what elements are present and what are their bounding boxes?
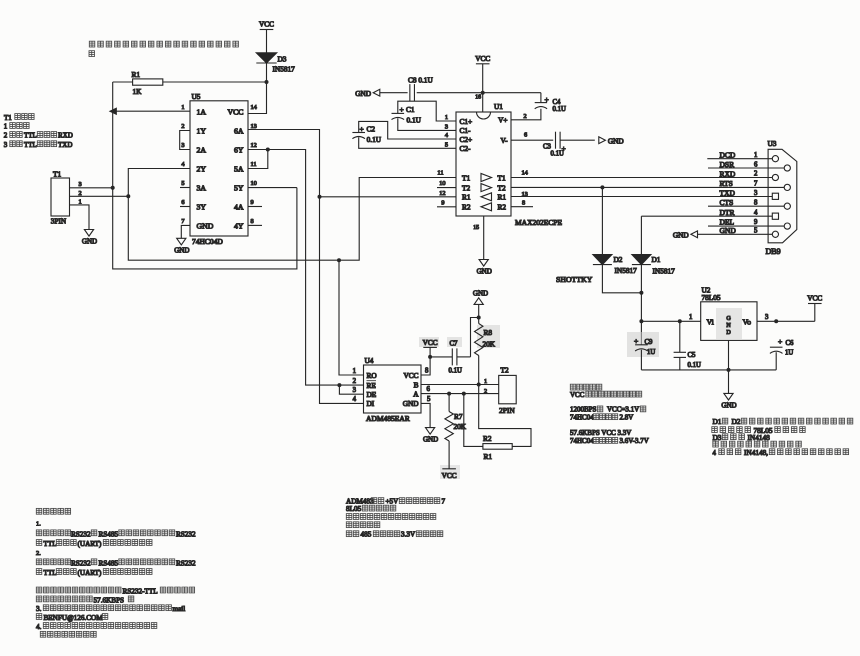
power VCC (above U1) (476, 63, 490, 65)
svg-text:T1: T1 (4, 114, 12, 122)
svg-text:9: 9 (754, 219, 758, 226)
wire CTS line (708, 205, 784, 207)
wire A line to T2 (421, 393, 499, 395)
svg-text:1.: 1. (36, 520, 41, 527)
junction C5 (678, 319, 682, 323)
svg-text:RO: RO (367, 371, 377, 380)
junction R7/A (447, 392, 451, 396)
svg-text:U3: U3 (768, 139, 777, 148)
wire U1 pin9 stub (437, 206, 456, 208)
svg-text:Vi: Vi (707, 318, 715, 327)
svg-text:MAX202ECPE: MAX202ECPE (515, 218, 563, 227)
svg-text:C8 0.1U: C8 0.1U (408, 76, 433, 85)
svg-text:T1: T1 (498, 173, 506, 182)
RS232 transceiver U1 MAX202ECPE (456, 112, 511, 216)
wire U5 pin9 stub (248, 206, 262, 208)
svg-text:57.6KBPS: 57.6KBPS (94, 596, 125, 604)
svg-text:13: 13 (251, 123, 257, 130)
svg-text:RS232: RS232 (71, 559, 91, 567)
svg-text:0.1U: 0.1U (553, 106, 566, 113)
svg-text:D1: D1 (713, 417, 722, 426)
svg-text:0.1U: 0.1U (688, 362, 701, 369)
svg-text:TXD: TXD (720, 188, 736, 197)
annotation: test results block (570, 384, 576, 390)
svg-text:74HC04D: 74HC04D (192, 237, 223, 246)
wire U5 pin12-pin11 jumper (248, 149, 268, 151)
svg-text:DTR: DTR (720, 208, 735, 217)
svg-text:3.3V: 3.3V (401, 531, 416, 539)
svg-text:T2: T2 (498, 183, 506, 192)
svg-text:1A: 1A (197, 108, 207, 117)
svg-text:VCC: VCC (442, 471, 457, 480)
svg-text:9: 9 (441, 200, 444, 207)
capacitor C3 + wire V- pin6 to ground (511, 139, 553, 141)
svg-text:IN5817: IN5817 (273, 65, 296, 74)
svg-text:TTL: TTL (24, 141, 37, 149)
junction RE/DE tie (337, 383, 341, 387)
svg-text:14: 14 (251, 104, 258, 111)
wire U5 pin7 to ground (181, 225, 190, 238)
connector T1 3PIN (51, 178, 70, 216)
svg-text:R1: R1 (484, 452, 493, 461)
svg-text:10: 10 (439, 180, 445, 187)
resistor R8 20K (478, 318, 480, 324)
svg-text:U4: U4 (365, 356, 374, 365)
svg-text:IN5817: IN5817 (653, 267, 676, 276)
wire U5 pin4 (2Y) to bus A (128, 169, 456, 261)
svg-text:1U: 1U (647, 349, 655, 356)
svg-text:2: 2 (79, 190, 82, 197)
svg-text:TTL: TTL (44, 569, 57, 577)
diode D1 IN5817 (632, 255, 651, 265)
svg-text:12: 12 (439, 190, 445, 197)
svg-text:7: 7 (442, 497, 446, 505)
svg-text:C6: C6 (786, 340, 795, 347)
wire U5 pin14 to VCC node (248, 82, 267, 114)
svg-text:R7: R7 (454, 412, 463, 421)
svg-text:78L05: 78L05 (702, 293, 721, 302)
svg-text:16: 16 (475, 94, 481, 100)
svg-text:VCC: VCC (807, 293, 822, 302)
wire U2 pin3 to VCC (757, 320, 815, 322)
annotation: bottom-left description block (36, 508, 42, 514)
svg-text:D1: D1 (652, 255, 661, 264)
svg-text:C4: C4 (553, 99, 562, 106)
svg-text:RS485: RS485 (99, 530, 119, 538)
wire TXD line (U1 pin8 to DB9 pin3) (511, 196, 772, 198)
svg-text:3: 3 (353, 387, 357, 394)
svg-text:15: 15 (473, 225, 479, 231)
svg-text:3: 3 (181, 142, 184, 149)
resistor R1 termination + wiring (464, 394, 483, 447)
svg-text:7: 7 (754, 181, 758, 188)
svg-text:+: + (778, 337, 782, 346)
ground (U1 pin15) (479, 260, 488, 267)
svg-text:8: 8 (754, 200, 758, 207)
svg-text:3: 3 (79, 181, 82, 188)
svg-text:3: 3 (754, 190, 758, 197)
svg-text:+: + (400, 105, 404, 114)
wire DCD line (707, 158, 772, 160)
junction VCC/U1 (481, 91, 485, 95)
svg-text:GND: GND (720, 226, 737, 235)
connector U3 DB9 (768, 149, 797, 243)
svg-text:DI: DI (367, 399, 375, 408)
svg-text:RE: RE (367, 381, 377, 390)
svg-text:12: 12 (251, 142, 257, 149)
wire U1 pin10 stub (437, 187, 456, 189)
wire D1 cathode down to regulator input (640, 265, 642, 345)
svg-text:8: 8 (522, 200, 525, 207)
svg-text:2: 2 (353, 378, 357, 385)
svg-text:1: 1 (754, 152, 757, 159)
svg-text:N: N (726, 323, 731, 329)
svg-text:9: 9 (251, 199, 254, 206)
svg-text:RS232: RS232 (176, 559, 196, 567)
svg-text:C7: C7 (450, 340, 459, 347)
wire T1 pin1 to ground (70, 205, 90, 230)
svg-text:1: 1 (79, 199, 82, 206)
svg-text:4Y: 4Y (234, 221, 244, 230)
wire D3 cathode to R1 node (266, 63, 268, 82)
capacitor C7 0.1U (430, 356, 452, 358)
wire DB9 GND line (697, 233, 772, 235)
capacitor C9 1U (635, 344, 648, 346)
svg-text:TXD: TXD (58, 141, 72, 149)
svg-text:0.1U: 0.1U (449, 368, 462, 375)
wire D1 anode (from DTR) (640, 216, 642, 254)
svg-text:VCC: VCC (403, 371, 418, 380)
svg-text:GND: GND (174, 246, 189, 254)
svg-text:U5: U5 (192, 92, 201, 101)
svg-text:TTL: TTL (44, 540, 57, 548)
svg-text:2.8V: 2.8V (620, 414, 634, 422)
svg-text:0.1U: 0.1U (407, 115, 422, 124)
capacitor C5 0.1U (679, 321, 681, 352)
svg-text:R1: R1 (132, 70, 141, 79)
svg-text:14: 14 (522, 170, 529, 177)
svg-text:RTS: RTS (720, 179, 733, 188)
wire ground rail (641, 369, 776, 371)
svg-text:T2: T2 (501, 365, 509, 374)
svg-text:6: 6 (181, 199, 184, 206)
wire U1 R2out stub (511, 206, 533, 208)
capacitor C8 0.1U (409, 84, 411, 101)
svg-text:1: 1 (484, 378, 487, 385)
junction T1 pin3 (111, 186, 115, 190)
svg-text:TTL: TTL (24, 132, 37, 140)
svg-text:VCC: VCC (423, 338, 438, 347)
wire U5 pin13 down to DI (248, 130, 364, 404)
svg-text:11: 11 (251, 161, 257, 168)
svg-text:(UART): (UART) (78, 540, 103, 548)
svg-text:7: 7 (181, 218, 184, 225)
svg-text:RS232-TTL: RS232-TTL (123, 588, 158, 596)
svg-text:3.: 3. (36, 605, 42, 613)
svg-text:+5V: +5V (386, 497, 400, 505)
svg-text:G: G (726, 316, 731, 322)
junction R8 top (477, 316, 481, 320)
svg-text:VCC: VCC (570, 391, 585, 399)
svg-text:V-: V- (500, 136, 508, 145)
junction at pin 1A (110, 108, 116, 114)
svg-text:RS232: RS232 (176, 530, 196, 538)
svg-text:2: 2 (4, 132, 8, 140)
wire U1 GND pin to ground (483, 216, 485, 260)
wire U5 pin5 stub (180, 187, 190, 189)
power VCC (top, above D3) (260, 29, 274, 31)
svg-text:8L05: 8L05 (346, 505, 362, 513)
svg-text:GND: GND (608, 136, 624, 145)
ground (T1 pin1) (84, 230, 93, 237)
svg-text:6Y: 6Y (234, 146, 244, 155)
svg-text:8: 8 (251, 218, 254, 225)
svg-text:VCC=3.1V: VCC=3.1V (607, 406, 639, 414)
svg-text:Vo: Vo (743, 318, 752, 327)
power VCC (right of U2) (808, 303, 822, 305)
wire R1out line (318, 195, 322, 199)
wire U5 pin8 stub (248, 224, 262, 226)
wire U5 pin12 to ADM485 RE (268, 150, 364, 386)
diode D3 IN5817 (256, 53, 276, 63)
svg-text:3A: 3A (197, 184, 207, 193)
svg-text:3: 3 (445, 124, 448, 131)
svg-text:GND: GND (673, 231, 689, 240)
wire U4 VCC pin8 (421, 347, 430, 375)
ground (DB9 pin5, left arrow) (691, 231, 698, 238)
svg-text:R1: R1 (462, 193, 471, 202)
svg-text:2: 2 (754, 171, 758, 178)
svg-text:T2: T2 (462, 183, 470, 192)
svg-text:3: 3 (765, 314, 769, 321)
svg-text:2: 2 (524, 113, 527, 120)
svg-text:DSR: DSR (720, 160, 735, 169)
svg-text:10: 10 (251, 180, 257, 187)
svg-text:C3: C3 (543, 143, 552, 150)
svg-text:GND: GND (403, 399, 419, 408)
svg-text:VCC: VCC (259, 20, 274, 29)
junction term/A (462, 392, 466, 396)
ground (C8, left arrow) (373, 89, 380, 96)
svg-text:BENFU@126.COM: BENFU@126.COM (44, 614, 104, 622)
svg-text:GND: GND (82, 238, 97, 246)
wire U5 pin6 stub (180, 206, 190, 208)
svg-text:R8: R8 (484, 328, 493, 337)
svg-text:1: 1 (181, 104, 184, 111)
svg-text:mail: mail (173, 605, 186, 613)
svg-text:VCC: VCC (227, 108, 243, 117)
svg-text:GND: GND (473, 290, 488, 298)
svg-text:B: B (414, 380, 419, 389)
svg-text:2: 2 (484, 388, 487, 395)
svg-text:D2: D2 (614, 255, 623, 264)
svg-text:CTS: CTS (720, 198, 734, 207)
svg-text:RS485: RS485 (99, 559, 119, 567)
svg-text:2Y: 2Y (197, 165, 207, 174)
ground (C3, right arrow) (599, 137, 606, 144)
svg-text:RXD: RXD (720, 169, 736, 178)
svg-text:+: + (545, 95, 549, 104)
power VCC (below R7) (442, 468, 456, 470)
wire D2 cathode join (602, 265, 641, 293)
wire VCC rail with C8 (380, 92, 408, 94)
svg-text:DEL: DEL (720, 217, 735, 226)
svg-text:6A: 6A (234, 127, 244, 136)
svg-text:C2-: C2- (460, 144, 472, 153)
svg-text:5Y: 5Y (234, 184, 244, 193)
svg-text:1Y: 1Y (197, 127, 207, 136)
capacitor C4 + wire to V+ pin2 (540, 93, 542, 103)
svg-text:5: 5 (427, 396, 431, 403)
svg-text:IN4148,: IN4148, (744, 448, 768, 457)
svg-text:DE: DE (367, 390, 377, 399)
svg-text:C1+: C1+ (460, 117, 473, 126)
svg-text:6: 6 (524, 132, 527, 139)
svg-text:RS232: RS232 (71, 530, 91, 538)
annotation: pull-up resistor note (89, 41, 95, 47)
svg-text:R2: R2 (483, 434, 492, 443)
wire DEL line (708, 225, 784, 227)
svg-text:20K: 20K (454, 422, 467, 431)
svg-text:485: 485 (361, 531, 372, 539)
svg-text:GND: GND (477, 268, 492, 276)
svg-text:D: D (726, 330, 731, 336)
wire T1 pin3 (70, 187, 113, 189)
svg-text:1: 1 (445, 114, 448, 121)
svg-text:C9: C9 (645, 339, 654, 346)
wire pin1 stub (113, 110, 190, 112)
svg-text:5A: 5A (234, 165, 244, 174)
svg-text:74HC04: 74HC04 (570, 437, 594, 445)
svg-text:1: 1 (4, 123, 8, 131)
svg-text:4.: 4. (36, 623, 42, 631)
svg-text:T1: T1 (53, 169, 61, 178)
svg-text:1U: 1U (785, 350, 793, 357)
svg-text:1K: 1K (133, 87, 143, 96)
wire T1 pin2 (70, 195, 129, 197)
svg-text:C1: C1 (406, 105, 415, 114)
svg-text:SHOTTKY: SHOTTKY (556, 275, 593, 284)
svg-text:5: 5 (181, 180, 184, 187)
svg-text:GND: GND (197, 221, 214, 230)
svg-text:57.6KBPS VCC 3.3V: 57.6KBPS VCC 3.3V (570, 429, 631, 437)
highlight smudge C9 (627, 332, 659, 357)
svg-text:(UART): (UART) (78, 569, 103, 577)
junction D2/RTS (600, 185, 604, 189)
svg-text:A: A (413, 389, 419, 398)
svg-text:RXD: RXD (58, 132, 73, 140)
svg-text:ADM485EAR: ADM485EAR (366, 414, 410, 423)
svg-text:3: 3 (4, 141, 8, 149)
highlight smudges near ADM485 (419, 337, 439, 347)
wire node 1A: R1 down to bus B (113, 82, 297, 269)
diode D2 IN5817 (593, 255, 612, 265)
svg-text:4: 4 (713, 450, 717, 457)
svg-text:5: 5 (754, 228, 758, 235)
connector T2 2PIN (499, 375, 517, 403)
wire input line to U2 (641, 320, 700, 322)
ground (U5 pin7) (177, 238, 186, 245)
svg-text:3Y: 3Y (197, 203, 207, 212)
svg-text:13: 13 (522, 191, 528, 198)
junction regulator input (639, 319, 643, 323)
svg-text:U1: U1 (494, 102, 503, 111)
hex inverter U5 74HC04D (190, 101, 248, 236)
junction R8/B (477, 383, 481, 387)
svg-text:GND: GND (423, 436, 438, 444)
svg-text:V+: V+ (498, 116, 507, 125)
svg-text:T1: T1 (462, 173, 470, 182)
wire U5 pin2-pin3 jumper (180, 131, 190, 150)
RS485 transceiver U4 ADM485 (364, 365, 422, 413)
svg-text:4: 4 (353, 396, 357, 403)
svg-text:R1: R1 (498, 193, 507, 202)
resistor R7 20K (448, 394, 450, 412)
svg-text:D3: D3 (713, 433, 722, 442)
svg-text:C5: C5 (688, 352, 697, 359)
regulator U2 78L05 (701, 302, 757, 341)
capacitor C6 1U (770, 346, 783, 348)
svg-text:3PIN: 3PIN (51, 216, 67, 225)
svg-text:2: 2 (181, 123, 184, 130)
svg-text:R2: R2 (462, 203, 471, 212)
svg-text:2.: 2. (36, 550, 41, 557)
wire RXD line (U1 pin14 to DB9 pin2) (511, 177, 772, 179)
junction T1 pin2 (126, 194, 130, 198)
svg-text:3.6V-3.7V: 3.6V-3.7V (620, 437, 649, 445)
resistor R1 1K (113, 81, 133, 83)
svg-text:2A: 2A (197, 146, 207, 155)
svg-text:C2: C2 (367, 125, 376, 134)
wire DTR line (to D1) (641, 215, 772, 217)
svg-text:5: 5 (445, 142, 448, 149)
svg-text:2PIN: 2PIN (499, 406, 515, 415)
svg-text:VCC: VCC (475, 54, 490, 63)
capacitor C2 0.1U loop (359, 121, 456, 139)
svg-text:IN4148: IN4148 (748, 433, 771, 442)
wire U2 GND pin2 (728, 340, 730, 393)
wire DSR line (708, 167, 784, 169)
svg-text:8: 8 (425, 368, 429, 375)
svg-text:20K: 20K (483, 339, 496, 348)
svg-text:D3: D3 (278, 55, 287, 64)
wire U5 pin10 stub (248, 187, 297, 189)
svg-text:0.1U: 0.1U (367, 135, 382, 144)
ground (U4 pin5) (426, 428, 435, 435)
junction C7 (428, 355, 432, 359)
svg-text:R2: R2 (498, 203, 507, 212)
svg-text:6: 6 (427, 386, 431, 393)
svg-text:1: 1 (353, 368, 356, 375)
capacitor C1 0.1U loop (398, 101, 456, 121)
svg-text:GND: GND (721, 401, 736, 409)
ground (U2 pin2) (724, 393, 733, 400)
wire D2 anode (601, 187, 603, 254)
svg-text:74HC04: 74HC04 (570, 414, 594, 422)
svg-text:4A: 4A (234, 203, 244, 212)
svg-text:DB9: DB9 (766, 247, 781, 256)
svg-text:DCD: DCD (720, 151, 736, 160)
svg-text:GND: GND (355, 89, 371, 98)
svg-text:+: + (360, 125, 364, 134)
svg-text:6: 6 (754, 161, 758, 168)
svg-text:+: + (562, 144, 566, 153)
svg-text:D2: D2 (732, 417, 741, 426)
power VCC (U4) (423, 346, 437, 348)
wire U4 GND pin5 to ground (421, 403, 430, 427)
wire RTS line (U1 pin13 to DB9 pin7) (511, 186, 784, 188)
wire bus A junction to ADM485 RO (337, 258, 341, 262)
